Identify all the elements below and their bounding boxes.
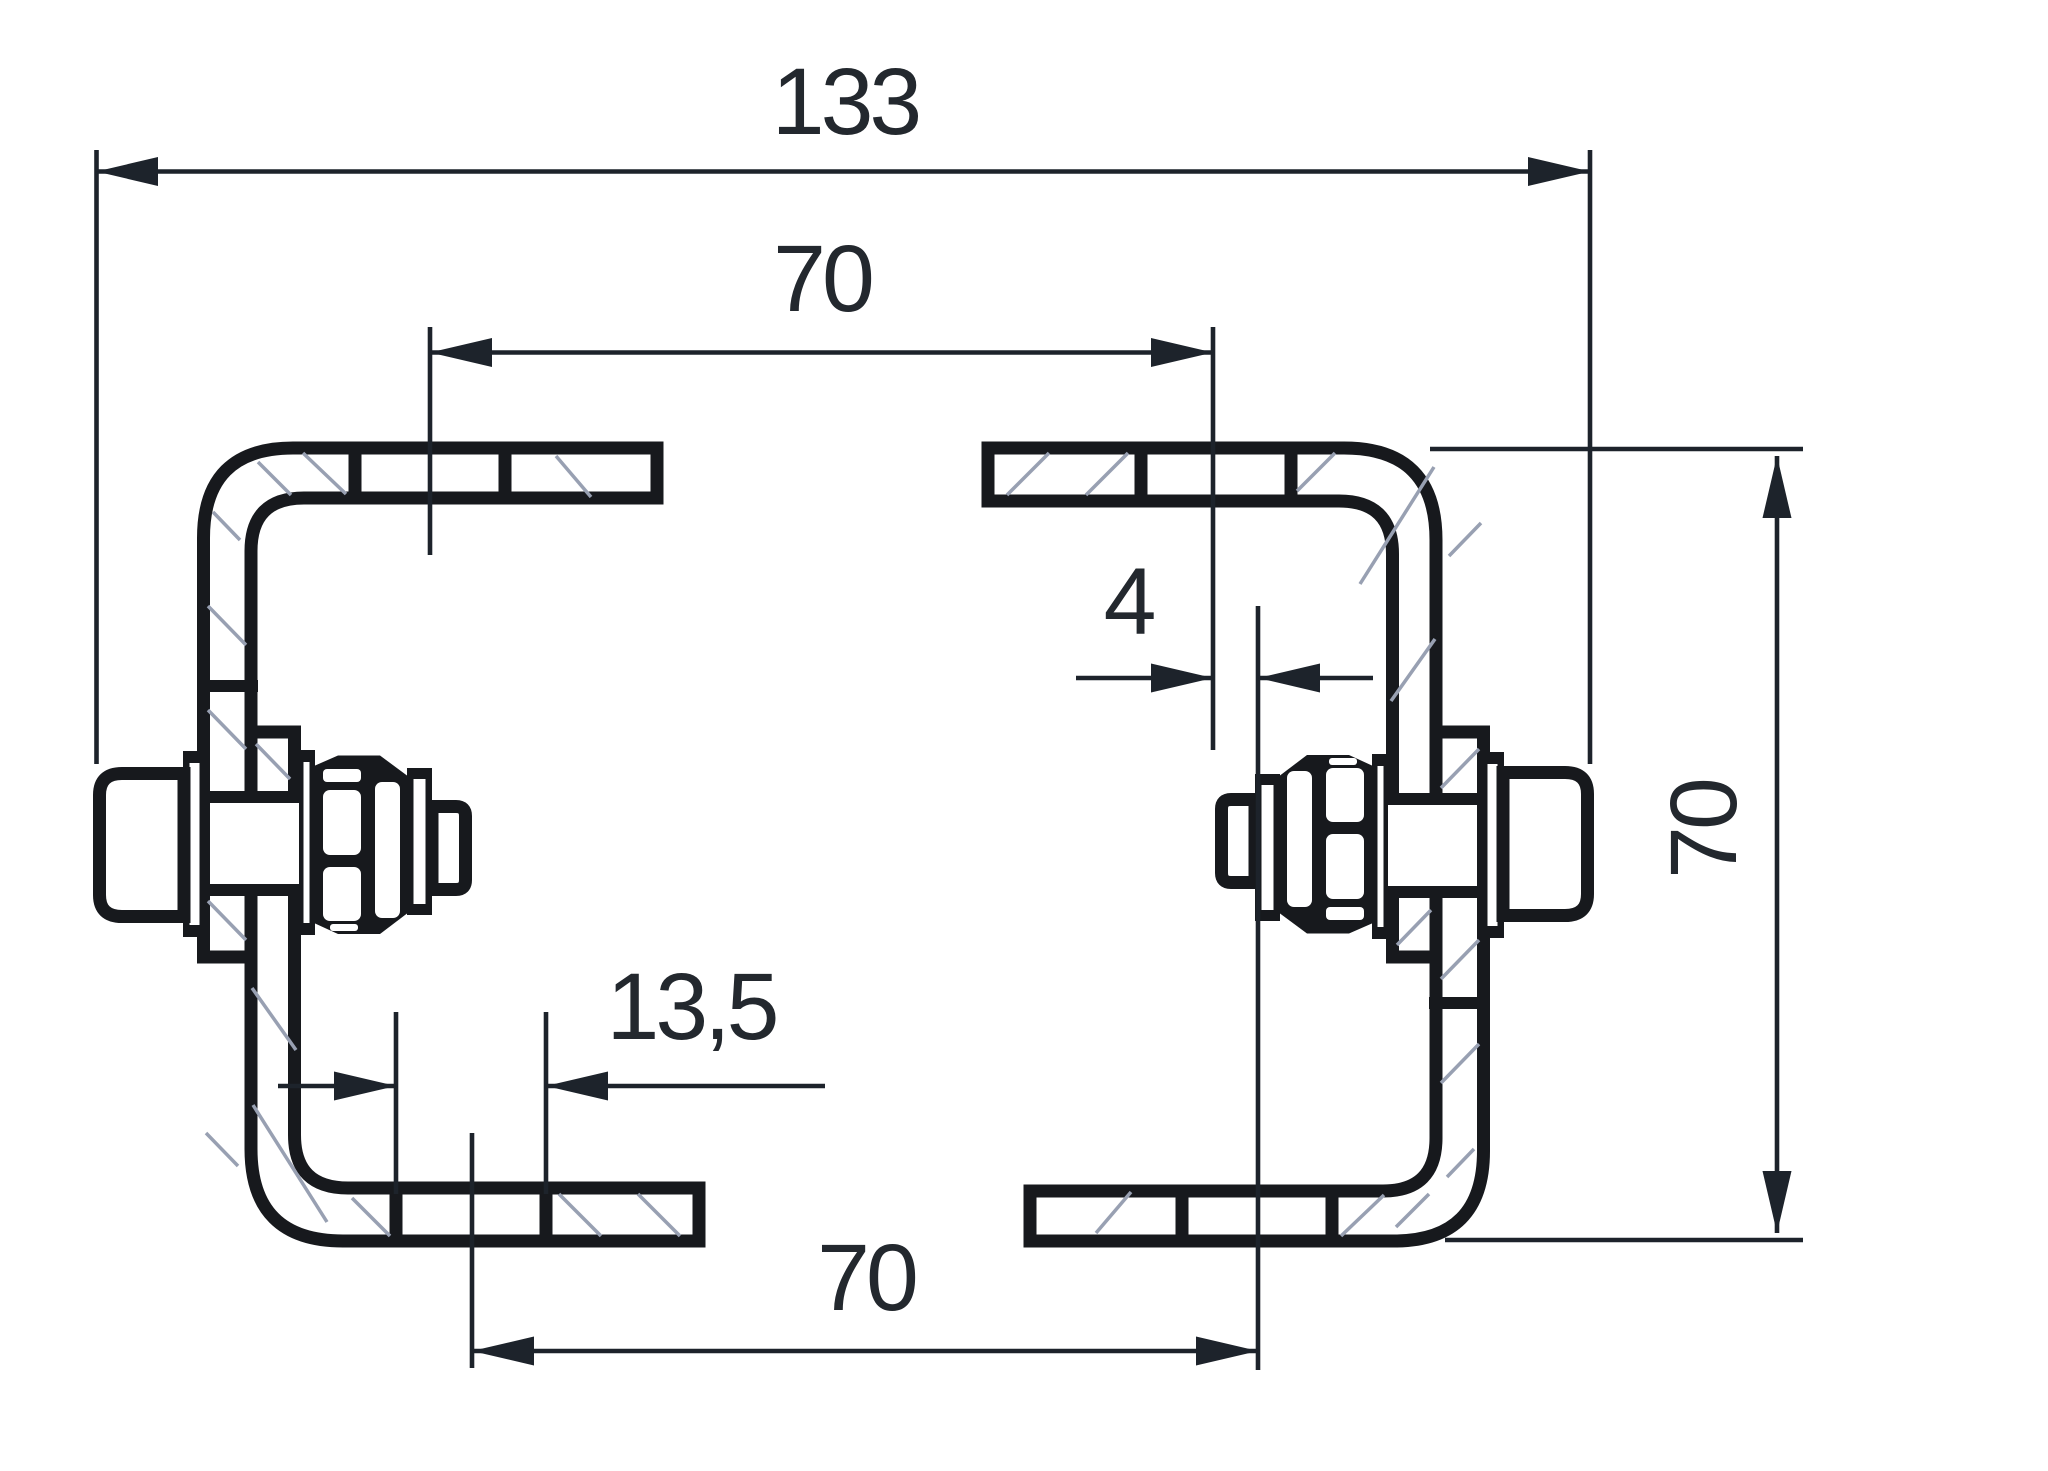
dim 70 bottom line [472, 1349, 1258, 1354]
section hatching, left bracket [206, 453, 680, 1236]
arrow 70 right bottom [1763, 1171, 1792, 1233]
arrow 70 top left [430, 338, 492, 367]
arrow 133 left [97, 157, 159, 186]
dim 13,5 extension lines [394, 1012, 399, 1194]
dim 13,5 line tails [278, 1084, 396, 1089]
arrow 133 right [1528, 157, 1590, 186]
dim 133 extension lines [94, 150, 99, 764]
svg-text:70: 70 [817, 1225, 916, 1331]
svg-text:4: 4 [1104, 549, 1155, 655]
arrow 70 right top [1763, 456, 1792, 518]
arrow 70 top right [1151, 338, 1213, 367]
arrow 4 right (outside, pointing left) [1258, 664, 1320, 693]
dim 70 right extension lines [1430, 447, 1803, 452]
dim 70 top extension lines [428, 327, 433, 555]
arrowheads [97, 157, 1792, 1366]
dim 4 right extension line (also bottom 70 right extension) [1256, 606, 1261, 1370]
arrow 13,5 left (outside, pointing right) [334, 1072, 396, 1101]
left bracket and bolt [100, 444, 700, 1245]
svg-text:13,5: 13,5 [607, 954, 776, 1060]
right bracket and bolt (same part rotated 180 deg) [988, 444, 1588, 1245]
dim 70 right line [1775, 456, 1780, 1233]
arrow 70 bottom right [1196, 1337, 1258, 1366]
svg-text:70: 70 [1651, 780, 1757, 879]
dim 70 top line [430, 350, 1213, 355]
section hatching, right bracket (mirrored direction) [1007, 453, 1481, 1236]
dim 133 line [97, 169, 1591, 174]
svg-text:133: 133 [772, 49, 919, 155]
dim 4 line tails [1076, 676, 1213, 681]
dim 70 bottom extension line left [470, 1133, 475, 1368]
arrow 4 left (outside, pointing right) [1151, 664, 1213, 693]
svg-text:70: 70 [773, 226, 872, 332]
dimension texts [607, 49, 1757, 1331]
arrow 70 bottom left [472, 1337, 534, 1366]
arrow 13,5 right (outside, pointing left) [546, 1072, 608, 1101]
